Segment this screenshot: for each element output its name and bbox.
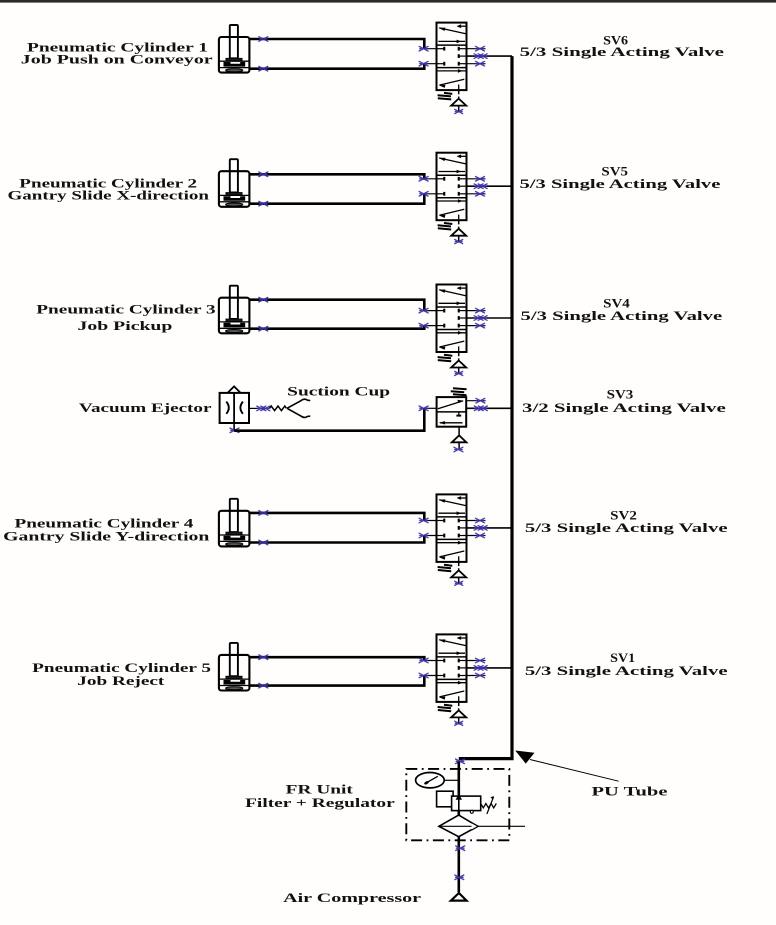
fitting X below FR unit [456, 846, 465, 851]
valve SV6 5/3 single acting valve body [437, 23, 467, 91]
svg-text:Job Reject: Job Reject [77, 673, 165, 688]
fitting X at SV4 port A [419, 308, 428, 313]
fitting X at SV5 port A [419, 177, 428, 182]
fitting X at SV1 port A [419, 658, 428, 663]
wire from CYL4 bottom port to SV2 port B [249, 536, 424, 543]
fitting X at CYL5 top port [259, 655, 268, 660]
stub wires into valve SV5 left ports [424, 179, 436, 194]
valve SV3 3/2 single acting valve body [437, 397, 467, 427]
exhaust silencer of valve SV6 [451, 90, 466, 112]
supply wire from valve SV1 to manifold [467, 667, 513, 669]
fitting X at SV4 right top port [476, 308, 485, 313]
fitting X at exhaust of SV1 [455, 721, 463, 725]
pressure gauge G1 [416, 773, 459, 788]
stub wires from valve SV2 right ports [467, 521, 486, 536]
fitting X at SV3 right top port [476, 398, 485, 403]
wire from CYL5 bottom port to SV1 port B [249, 676, 424, 686]
pneumatic cylinder CYL4 (Gantry Slide Y-direction) [219, 499, 250, 547]
fitting X at SV4 right bottom port [476, 323, 485, 328]
wire from CYL1 top port to SV6 port A [249, 39, 424, 49]
wire from CYL3 top port to SV4 port A [249, 300, 424, 311]
fitting X at SV1 port B [419, 673, 428, 678]
fitting X at SV3 inlet [419, 406, 428, 411]
stub wires from valve SV4 right ports [467, 311, 486, 326]
fitting X at SV6 right top port [476, 46, 485, 51]
fitting X at SV2 supply port [474, 526, 487, 531]
svg-text:5/3 Single Acting Valve: 5/3 Single Acting Valve [521, 308, 723, 323]
fitting X at SV2 right top port [476, 518, 485, 523]
supply wire from valve SV4 to manifold [467, 317, 513, 319]
wire from CYL2 top port to SV5 port A [249, 174, 424, 179]
fitting X at CYL2 top port [259, 172, 268, 177]
fitting X above compressor [455, 875, 464, 880]
fitting X at SV3 supply port [474, 406, 487, 411]
PU Tube arrow [515, 751, 618, 782]
valve SV5 5/3 single acting valve body [437, 153, 467, 221]
svg-text:Vacuum Ejector: Vacuum Ejector [79, 400, 212, 415]
wire from ejector VE1 outlet to suction cup [249, 407, 259, 409]
supply wire from valve SV2 to manifold [467, 527, 513, 529]
svg-text:5/3 Single Acting Valve: 5/3 Single Acting Valve [520, 176, 721, 191]
supply wire from valve SV3 to manifold [466, 407, 512, 409]
fitting X at CYL1 top port [259, 37, 268, 42]
wire from CYL5 top port to SV1 port A [249, 657, 424, 660]
spring return of valve SV1 [438, 705, 453, 712]
FR unit enclosure (dash-dot) [406, 769, 509, 840]
svg-text:Gantry Slide Y-direction: Gantry Slide Y-direction [3, 528, 210, 543]
fitting X at SV5 supply port [474, 184, 487, 189]
filter F1 [439, 815, 525, 837]
svg-text:Pneumatic Cylinder 3: Pneumatic Cylinder 3 [36, 302, 216, 317]
pneumatic cylinder CYL5 (Job Reject) [219, 643, 250, 691]
svg-text:5/3 Single Acting Valve: 5/3 Single Acting Valve [525, 520, 728, 535]
stub wires into valve SV4 left ports [424, 311, 436, 326]
fitting X at CYL4 bottom port [259, 540, 268, 545]
fitting X at SV6 supply port [474, 54, 487, 59]
exhaust silencer of valve SV1 [451, 702, 466, 724]
fitting X below ejector [230, 428, 239, 433]
fitting X at CYL4 top port [259, 511, 268, 516]
stub wires from valve SV1 right ports [467, 661, 486, 676]
fitting X at CYL3 bottom port [259, 326, 268, 331]
stub wires into valve SV2 left ports [424, 521, 436, 536]
pneumatic cylinder CYL3 (Job Pickup) [219, 286, 250, 334]
svg-text:Air Compressor: Air Compressor [283, 890, 421, 905]
flexible hose squiggle [270, 406, 287, 411]
svg-text:Gantry Slide X-direction: Gantry Slide X-direction [8, 188, 211, 203]
pneumatic cylinder CYL1 (Job Push on Conveyor) [219, 25, 250, 73]
wire from CYL2 bottom port to SV5 port B [249, 194, 424, 204]
supply wire from valve SV6 to manifold [467, 55, 513, 57]
fitting X at SV2 port B [419, 533, 428, 538]
manifold PU tube main line [459, 56, 512, 759]
fitting X at CYL2 bottom port [259, 201, 268, 206]
spring return of valve SV4 [438, 355, 453, 362]
fitting X at exhaust of SV3 [454, 447, 463, 452]
exhaust silencer of valve SV4 [451, 352, 466, 374]
stub wires from valve SV5 right ports [467, 179, 486, 194]
fitting X at SV1 right top port [476, 658, 485, 663]
fitting X at CYL5 bottom port [259, 683, 268, 688]
wire from CYL1 bottom port to SV6 port B [249, 64, 424, 69]
exhaust silencer of valve SV3 [452, 427, 467, 450]
fitting X at SV5 right bottom port [476, 192, 485, 197]
supply wire from valve SV5 to manifold [467, 185, 513, 187]
svg-text:5/3 Single Acting Valve: 5/3 Single Acting Valve [520, 44, 725, 59]
fitting X at CYL3 top port [259, 297, 268, 302]
fitting X at SV1 supply port [474, 666, 487, 671]
fitting X at SV2 port A [419, 518, 428, 523]
fitting X at SV1 right bottom port [476, 673, 485, 678]
fitting X at SV2 right bottom port [476, 533, 485, 538]
stub wires into valve SV6 left ports [424, 49, 436, 64]
fitting X at FR unit outlet [456, 759, 465, 764]
valve SV2 5/3 single acting valve body [437, 494, 467, 562]
fitting X at SV4 port B [419, 323, 428, 328]
fitting X at SV6 port B [419, 61, 428, 66]
fitting X at exhaust of SV5 [455, 240, 463, 244]
fitting X at SV6 right bottom port [476, 61, 485, 66]
fitting X at ejector outlet [257, 406, 270, 411]
fitting X at SV6 port A [419, 46, 428, 51]
fitting X at SV5 right top port [476, 177, 485, 182]
FR unit main line [457, 762, 460, 816]
svg-text:Job Push on Conveyor: Job Push on Conveyor [21, 52, 213, 67]
spring return of valve SV6 [438, 93, 453, 99]
svg-text:PU Tube: PU Tube [592, 783, 668, 798]
spring return of valve SV2 [438, 565, 453, 572]
pneumatic cylinder CYL2 (Gantry Slide X-direction) [219, 159, 250, 207]
vacuum ejector VE1 [220, 386, 249, 423]
wire from ejector VE1 suction port to valve SV3 [233, 423, 235, 431]
exhaust silencer of valve SV5 [451, 220, 466, 242]
stub wire SV3 top right port [466, 400, 485, 402]
svg-text:Suction Cup: Suction Cup [287, 383, 390, 398]
fitting X at exhaust of SV2 [455, 581, 463, 585]
stub wires into valve SV1 left ports [424, 661, 436, 676]
exhaust silencer of valve SV2 [451, 562, 466, 584]
suction cup SC1 [287, 399, 310, 417]
air compressor symbol [451, 893, 467, 901]
stub wires from valve SV6 right ports [467, 49, 486, 64]
fitting X at SV4 supply port [474, 316, 487, 321]
wire FR unit to compressor [457, 837, 460, 893]
fitting X at CYL1 bottom port [259, 66, 268, 71]
spring return of valve SV5 [438, 223, 453, 230]
fitting X at SV5 port B [419, 192, 428, 197]
wire from CYL4 top port to SV2 port A [249, 513, 424, 521]
top border line [0, 0, 776, 3]
svg-text:Filter + Regulator: Filter + Regulator [245, 795, 395, 810]
valve SV1 5/3 single acting valve body [437, 634, 467, 702]
pressure regulator R1 [437, 791, 497, 814]
svg-text:Job Pickup: Job Pickup [78, 318, 173, 333]
svg-text:3/2 Single Acting Valve: 3/2 Single Acting Valve [522, 400, 726, 415]
wire from CYL3 bottom port to SV4 port B [249, 326, 424, 329]
svg-text:5/3 Single Acting Valve: 5/3 Single Acting Valve [525, 663, 728, 678]
fitting X at exhaust of SV4 [455, 371, 463, 375]
valve SV4 5/3 single acting valve body [437, 285, 467, 353]
spring return of valve SV3 [451, 388, 467, 395]
fitting X at exhaust of SV6 [455, 109, 463, 113]
